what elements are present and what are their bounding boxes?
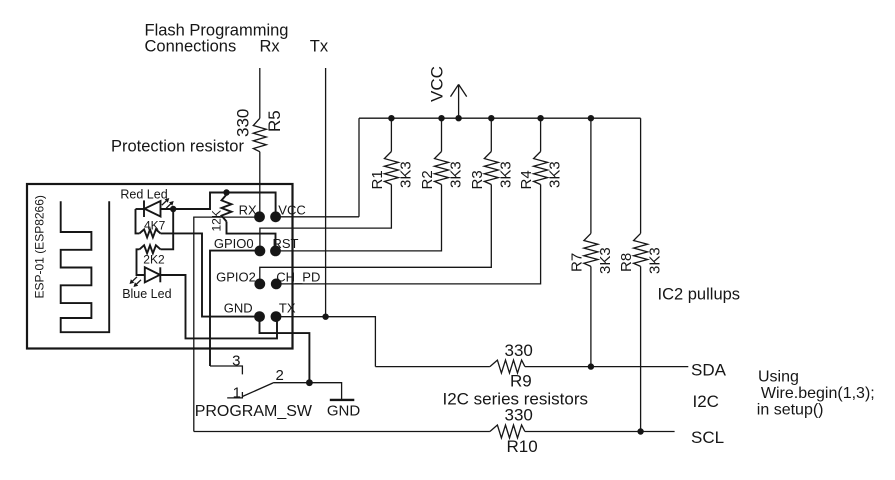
svg-text:Blue Led: Blue Led [122, 287, 171, 301]
svg-text:330: 330 [234, 109, 253, 137]
svg-text:R2: R2 [419, 170, 436, 189]
svg-text:TX: TX [279, 301, 296, 316]
value 12K [210, 210, 224, 231]
junction rail at R7 [588, 115, 594, 121]
svg-text:R7: R7 [568, 253, 585, 272]
net label Rx [260, 38, 281, 56]
pin VCC [270, 211, 281, 222]
designator R8 [618, 253, 635, 272]
designator R9 [510, 372, 532, 391]
net label VCC [427, 66, 446, 102]
value 3K3 of R1 [397, 161, 414, 188]
resistor 4K7 [140, 229, 161, 237]
wire SDA left [375, 366, 490, 368]
wire R3 bottom to pin [260, 185, 492, 284]
designator R10 [507, 437, 538, 456]
power symbol VCC arrow [451, 84, 467, 118]
value 4K7 [144, 219, 166, 233]
value 3K3 of R4 [547, 161, 564, 188]
svg-text:330: 330 [505, 406, 533, 425]
pin number 1 [233, 385, 241, 402]
wire RX to SCL net [194, 217, 260, 431]
resistor R9 [490, 360, 525, 373]
svg-text:in setup(): in setup() [757, 402, 824, 419]
LED red triangle [145, 201, 161, 217]
ground symbol GND [330, 399, 355, 401]
wire rail to R4 [540, 118, 542, 151]
LED blue triangle [145, 267, 160, 282]
net label SCL [691, 428, 724, 447]
wire rail to R2 [441, 118, 443, 151]
pin RX [254, 211, 265, 222]
wire switch pin 3 terminal [210, 366, 242, 374]
pin GPIO0 [255, 246, 266, 257]
svg-text:PROGRAM_SW: PROGRAM_SW [195, 403, 313, 420]
wire blue LED cathode to TX pin [160, 275, 277, 338]
svg-text:R9: R9 [510, 372, 532, 391]
switch SW1 lever [242, 383, 273, 397]
designator PROGRAM_SW [195, 403, 313, 420]
svg-text:RST: RST [273, 236, 299, 251]
LED blue cathode bar [159, 267, 161, 282]
svg-text:3K3: 3K3 [547, 161, 564, 188]
pin TX [271, 311, 282, 322]
junction SCL R8 [637, 428, 643, 434]
junction rail at VCC arrow [455, 115, 461, 121]
svg-text:3K3: 3K3 [497, 161, 514, 188]
svg-text:Wire.begin(1,3);: Wire.begin(1,3); [761, 385, 875, 402]
value 3K3 of R7 [597, 247, 614, 274]
svg-text:12K: 12K [210, 210, 224, 231]
designator R4 [518, 170, 535, 189]
svg-text:I2C: I2C [693, 392, 719, 411]
svg-text:CH_PD: CH_PD [276, 270, 320, 285]
wire R8 to SCL [640, 266, 642, 431]
pin CH_PD [271, 279, 282, 290]
resistor R1 [384, 152, 398, 185]
junction rail at R1 [388, 115, 394, 121]
wire 4K7 to GND pin [161, 233, 260, 316]
svg-text:IC2 pullups: IC2 pullups [658, 286, 741, 304]
svg-text:Tx: Tx [310, 38, 329, 56]
svg-text:3K3: 3K3 [448, 161, 465, 188]
junction red LED VCC node [170, 206, 176, 212]
junction rail at R2 [438, 115, 444, 121]
svg-text:Using: Using [758, 369, 799, 386]
wire VCC rail left drop to VCC pin wire [358, 118, 360, 217]
wire rail to R7 [590, 118, 592, 233]
label Red Led [120, 188, 167, 202]
designator R2 [419, 170, 436, 189]
wire switch pin 2 to junction [273, 382, 309, 384]
wire R5 to RX pin [259, 152, 261, 217]
ground label GND [327, 403, 361, 420]
wire VCC node to 2K2 [161, 209, 174, 249]
wire SCL left [194, 431, 490, 433]
value 330 of R5 [234, 109, 253, 137]
svg-text:SCL: SCL [691, 428, 724, 447]
wire GND pin to switch junction [260, 317, 310, 383]
svg-text:R4: R4 [518, 170, 535, 189]
wire Rx from label to R5 [259, 68, 261, 118]
wire SCL right [525, 431, 675, 433]
resistor 2K2 [140, 245, 161, 253]
svg-text:GPIO0: GPIO0 [214, 236, 254, 251]
svg-text:R1: R1 [369, 170, 386, 189]
wire GPIO0 to switch pin 3 [210, 251, 260, 366]
wire red LED left node [136, 209, 140, 233]
net label SDA [691, 361, 727, 380]
label I2C [693, 392, 719, 411]
LED blue emission arrows [130, 277, 142, 287]
svg-text:2K2: 2K2 [143, 253, 165, 267]
wire switch pin 1 terminal [227, 392, 242, 398]
svg-text:3K3: 3K3 [597, 247, 614, 274]
svg-text:4K7: 4K7 [144, 219, 166, 233]
svg-text:3K3: 3K3 [647, 247, 664, 274]
note Using line3 [757, 402, 824, 419]
pin label TX [279, 301, 296, 316]
value 3K3 of R8 [647, 247, 664, 274]
value 2K2 [143, 253, 165, 267]
svg-text:2: 2 [276, 367, 284, 384]
value 3K3 of R3 [497, 161, 514, 188]
pin label VCC [278, 203, 305, 218]
junction SDA R7 [588, 363, 594, 369]
svg-text:3: 3 [232, 353, 240, 370]
wire VCC pin to rail [276, 216, 359, 218]
junction 12K top [223, 189, 229, 195]
wire TX pin to junction [276, 316, 326, 318]
wire red LED anode row [136, 208, 145, 210]
pin label RST [273, 236, 299, 251]
wire Tx vertical [325, 68, 327, 317]
wire SDA right [525, 366, 688, 368]
value 330 of R10 [505, 406, 533, 425]
svg-text:R8: R8 [618, 253, 635, 272]
svg-text:RX: RX [239, 203, 257, 218]
value 3K3 of R2 [448, 161, 465, 188]
svg-text:R10: R10 [507, 437, 538, 456]
resistor R7 [584, 233, 598, 266]
net label Tx [310, 38, 329, 56]
svg-text:GPIO2: GPIO2 [216, 270, 256, 285]
resistor R8 [634, 233, 648, 266]
antenna meander [61, 201, 109, 332]
designator R3 [469, 170, 486, 189]
designator R5 [265, 110, 284, 132]
pin label CH_PD [276, 270, 320, 285]
pin GPIO2 [254, 279, 265, 290]
label Flash Programming Connections line2 [145, 38, 237, 56]
svg-text:R3: R3 [469, 170, 486, 189]
wire rail to R1 [390, 118, 392, 151]
pin number 2 [276, 367, 284, 384]
svg-text:VCC: VCC [278, 203, 305, 218]
resistor R3 [484, 152, 498, 185]
svg-text:GND: GND [224, 301, 253, 316]
pin number 3 [232, 353, 240, 370]
svg-text:Red Led: Red Led [120, 188, 167, 202]
junction rail at R3 [488, 115, 494, 121]
wire 2K2 to blue LED [137, 249, 145, 275]
wire R7 to SDA [590, 266, 592, 366]
junction rail at R4 [537, 115, 543, 121]
designator R1 [369, 170, 386, 189]
wire TX junction to SDA [326, 317, 376, 367]
wire rail corner to R8 [640, 118, 642, 233]
svg-text:SDA: SDA [691, 361, 727, 380]
resistor R5 [253, 118, 266, 151]
wire 12K to RST pin [227, 222, 276, 251]
svg-text:R5: R5 [265, 110, 284, 132]
value 330 of R9 [505, 341, 533, 360]
wire switch junction to GND symbol [309, 383, 341, 400]
resistor 12K [222, 195, 232, 222]
designator R7 [568, 253, 585, 272]
wire rail to R3 [490, 118, 492, 151]
label Flash Programming Connections line1 [145, 22, 289, 40]
resistor R10 [490, 425, 525, 438]
pin RST [270, 246, 281, 257]
LED red cathode bar [143, 200, 145, 217]
pin label GND [224, 301, 253, 316]
pin label RX [239, 203, 257, 218]
wire R4 bottom to pin [276, 185, 540, 284]
svg-text:Rx: Rx [260, 38, 281, 56]
label IC2 pullups [658, 286, 741, 304]
pin label GPIO0 [214, 236, 254, 251]
svg-text:Protection resistor: Protection resistor [111, 138, 244, 156]
note Using line1 [758, 369, 799, 386]
wire red LED to VCC node [161, 193, 276, 217]
svg-text:VCC: VCC [427, 66, 446, 102]
note Using line2 [761, 385, 875, 402]
junction TX Tx [322, 314, 328, 320]
LED red emission arrows [162, 198, 174, 208]
junction switch common [306, 379, 313, 386]
svg-text:Connections: Connections [145, 38, 237, 56]
module ESP-01 outline box [27, 184, 293, 349]
svg-text:ESP-01 (ESP8266): ESP-01 (ESP8266) [33, 195, 47, 298]
wire VCC rail [359, 117, 641, 119]
label Protection resistor [111, 138, 244, 156]
resistor R2 [435, 152, 449, 185]
wire R2 bottom to pin [276, 185, 442, 251]
svg-text:330: 330 [505, 341, 533, 360]
pin label GPIO2 [216, 270, 256, 285]
label ESP-01 (ESP8266) [33, 195, 47, 298]
svg-text:3K3: 3K3 [397, 161, 414, 188]
svg-text:GND: GND [327, 403, 361, 420]
label Blue Led [122, 287, 171, 301]
resistor R4 [534, 152, 548, 185]
svg-text:1: 1 [233, 385, 241, 402]
label I2C series resistors [443, 390, 588, 409]
wire 12K top lead [226, 193, 228, 195]
pin GND [254, 311, 265, 322]
wire R1 bottom to pin [260, 185, 392, 251]
